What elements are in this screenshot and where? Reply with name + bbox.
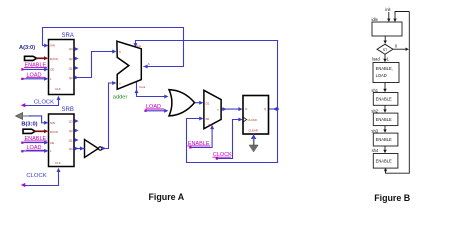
svg-text:Cout: Cout: [139, 85, 145, 89]
decision to load: [384, 54, 386, 60]
idle to decision: [384, 36, 386, 41]
svg-text:ST: ST: [383, 48, 388, 52]
svg-text:Y: Y: [217, 108, 219, 112]
flip-flop U4: [243, 96, 269, 135]
state box sh3: [373, 133, 398, 146]
svg-text:SRA: SRA: [62, 33, 74, 39]
sh2 to sh3: [384, 126, 386, 131]
wire LOAD to SRB L: [24, 150, 46, 152]
svg-text:D(3:0): D(3:0): [50, 57, 58, 61]
wire ENABLE to SRA CE: [24, 68, 46, 70]
svg-text:CLK: CLK: [55, 87, 61, 91]
0 branch line: [393, 48, 406, 50]
wire: adder Cout to OR gate input: [137, 82, 166, 97]
wire inverter out to adder Y: [102, 83, 113, 149]
state box idle: [372, 22, 402, 36]
svg-text:X: X: [119, 50, 121, 54]
svg-text:idle: idle: [372, 17, 379, 22]
wire ENABLE to SRB CE: [24, 142, 46, 144]
or-gate U2: [169, 90, 195, 116]
wire arrow at Cout: [135, 89, 139, 93]
svg-text:Q0: Q0: [69, 76, 73, 80]
svg-text:CLOCK: CLOCK: [247, 118, 257, 122]
svg-text:load: load: [372, 57, 380, 62]
svg-text:init: init: [385, 7, 391, 12]
svg-text:Figure A: Figure A: [149, 192, 185, 202]
mux U3: [204, 90, 221, 128]
decision diamond ST: [377, 44, 393, 54]
svg-text:ENABLE: ENABLE: [376, 97, 392, 102]
svg-text:Q2: Q2: [69, 57, 73, 61]
wire: mux Y to FF D: [222, 108, 240, 110]
svg-text:ENABLE: ENABLE: [376, 137, 392, 142]
svg-text:S0: S0: [208, 123, 212, 127]
junction node at Q/vertical: [276, 108, 278, 110]
wire: feedback adder S output to SRA SIN (top loop): [43, 28, 184, 67]
sh1 to sh2: [384, 105, 386, 111]
wire: SRA Q0 to adder X: [78, 52, 113, 78]
loop return into idle: [395, 12, 409, 20]
svg-text:SRB: SRB: [62, 107, 74, 113]
wire LOAD to SRA L: [24, 78, 46, 80]
wire arrow at adder S pin: [143, 65, 147, 69]
init entry arrow: [388, 12, 390, 20]
wire arrow into adder Cin: [134, 43, 138, 47]
svg-text:SIN: SIN: [50, 121, 55, 125]
svg-text:ENABLE: ENABLE: [376, 117, 392, 122]
svg-text:CE: CE: [50, 68, 54, 72]
svg-text:sh3: sh3: [371, 129, 378, 134]
svg-text:ENABLE: ENABLE: [376, 159, 392, 164]
bus tap terminal B: [23, 129, 35, 133]
svg-text:S: S: [148, 62, 150, 66]
bus wire B(3:0) to SRB D: [35, 130, 44, 132]
svg-text:LOAD: LOAD: [376, 73, 387, 78]
SRB output pins Q3..Q0: [74, 119, 78, 123]
svg-text:sh2: sh2: [371, 108, 378, 113]
svg-text:CLEAR: CLEAR: [248, 128, 258, 132]
state box sh1: [373, 93, 398, 106]
wire arrow into adder X: [112, 50, 116, 54]
wire SRB Q0 to inverter: [75, 148, 85, 150]
svg-text:ENABLE,: ENABLE,: [376, 66, 393, 71]
wire CLOCK to SRA CLK: [25, 100, 59, 106]
svg-text:D: D: [245, 107, 247, 111]
state box sh2: [373, 113, 398, 126]
load to sh1: [384, 83, 386, 91]
FF clear to ground: [253, 134, 255, 140]
svg-text:CLOCK: CLOCK: [34, 99, 54, 105]
adder U1: [117, 41, 141, 89]
svg-text:Q2: Q2: [69, 129, 73, 133]
svg-text:sh1: sh1: [371, 88, 378, 93]
flowchart arrowheads: [387, 19, 390, 22]
bus wire A(3:0) to SRA D: [37, 57, 45, 59]
svg-text:CE: CE: [50, 141, 54, 145]
svg-text:Q3: Q3: [69, 119, 73, 123]
gray output terminal at SRB SIN: [16, 113, 23, 120]
svg-text:D0: D0: [206, 117, 210, 121]
wire CLOCK to SRB CLK: [25, 172, 59, 186]
wire: OR output to mux D1: [195, 102, 200, 104]
svg-text:D(3:0): D(3:0): [50, 130, 58, 134]
svg-text:CLK: CLK: [55, 161, 61, 165]
SRA output pins Q3..Q0: [74, 47, 78, 51]
inverter on SRB Q0: [85, 140, 99, 158]
svg-text:adder: adder: [113, 95, 128, 101]
wire: LOAD to OR gate input 2: [147, 110, 166, 112]
wire terminal to SRB SIN: [30, 116, 46, 123]
wire: FF Q feedback to adder Cin and mux D0 hold loop: [269, 108, 278, 110]
svg-text:Y: Y: [119, 82, 121, 86]
wire: CLOCK to FF clock pin: [218, 120, 240, 159]
state box sh4: [373, 154, 398, 169]
svg-text:Figure B: Figure B: [374, 193, 410, 203]
state box load: [373, 63, 399, 83]
svg-text:CLOCK: CLOCK: [26, 173, 46, 179]
svg-text:Cin: Cin: [137, 44, 142, 48]
wire arrow into mux D0: [199, 117, 203, 121]
sh3 to sh4: [384, 146, 386, 151]
svg-text:Q3: Q3: [69, 47, 73, 51]
right loop line: [386, 12, 410, 174]
svg-text:Q0: Q0: [69, 147, 73, 151]
bus tap terminal A: [25, 56, 37, 60]
wire arrow at FF Q output: [273, 107, 277, 111]
svg-text:sh4: sh4: [372, 148, 379, 153]
svg-text:SIN: SIN: [50, 44, 55, 48]
wire: ENABLE to mux S0: [192, 128, 213, 148]
svg-text:A(3:0): A(3:0): [19, 45, 35, 51]
wire arrow into SRA SIN: [44, 44, 48, 48]
ground symbol: [253, 139, 255, 146]
svg-text:Q1: Q1: [69, 138, 73, 142]
wire arrow into OR input 1: [164, 95, 168, 99]
svg-text:D1: D1: [206, 101, 210, 105]
svg-text:B(3:0): B(3:0): [21, 121, 37, 127]
svg-text:Q1: Q1: [69, 66, 73, 70]
